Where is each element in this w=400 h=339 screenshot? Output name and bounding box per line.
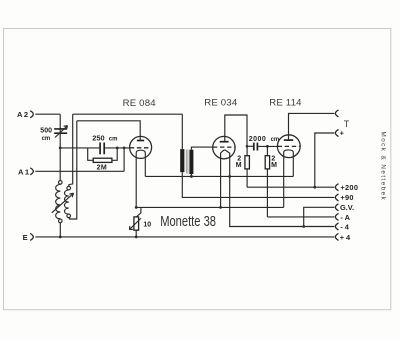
terminal T bbox=[335, 110, 349, 129]
wire RE034 filament right leg to -4 bbox=[230, 159, 335, 227]
svg-text:Monette 38: Monette 38 bbox=[160, 214, 216, 230]
capacitor 2000cm plates bbox=[254, 143, 258, 151]
resistor R 2M grid leak RE084 bbox=[88, 148, 118, 172]
node secondary to filament plus rail bbox=[190, 175, 193, 178]
terminal A1 bbox=[18, 167, 33, 176]
svg-text:M: M bbox=[271, 162, 277, 169]
terminal plus headphone bbox=[335, 129, 344, 138]
node G.V. on -4 line bbox=[302, 225, 305, 228]
svg-text:G.V.: G.V. bbox=[340, 203, 354, 212]
svg-text:cm: cm bbox=[42, 136, 51, 142]
svg-text:A2: A2 bbox=[17, 110, 30, 119]
wire + terminal to +200 rail bbox=[315, 133, 335, 187]
node grid leak RE114 tap bbox=[266, 145, 269, 148]
tube RE114 bbox=[277, 135, 300, 158]
capacitor C 500cm (variable) bbox=[40, 126, 67, 142]
node coupling node bbox=[246, 145, 249, 148]
wire RE034 filament left leg bbox=[220, 159, 222, 208]
wire transformer secondary top to grid RE034 bbox=[191, 147, 213, 150]
svg-text:M: M bbox=[236, 162, 242, 169]
wire capacitor to grid RE114 bbox=[258, 145, 277, 147]
node rheostat to earth line bbox=[135, 236, 138, 239]
wire transformer primary top lead bbox=[181, 114, 183, 149]
svg-text:- A: - A bbox=[340, 213, 350, 222]
svg-text:2000: 2000 bbox=[249, 136, 267, 143]
wire coil R top to top rail bbox=[69, 114, 73, 186]
terminal +200 bbox=[335, 183, 358, 192]
value label 2000 cm bbox=[249, 136, 280, 143]
svg-text:250: 250 bbox=[92, 134, 104, 143]
coil R reaction coil with terminals bbox=[65, 186, 71, 217]
wire +200 rail bbox=[247, 186, 334, 188]
svg-text:RE 034: RE 034 bbox=[204, 98, 238, 109]
svg-text:E: E bbox=[23, 233, 28, 242]
svg-text:500: 500 bbox=[40, 127, 52, 134]
wire grid line from tuned circuit bbox=[60, 147, 99, 149]
wire RE114 filament left leg to minus rail bbox=[283, 157, 285, 207]
resistor 2M grid leak RE114 bbox=[265, 146, 277, 217]
wire anode rail RE084 bbox=[77, 121, 140, 140]
node + wire on +200 rail bbox=[313, 186, 316, 189]
node RE034 right leg on filament plus rail bbox=[228, 175, 231, 178]
svg-text:2M: 2M bbox=[97, 165, 108, 172]
svg-text:Mock & Nettebek: Mock & Nettebek bbox=[380, 132, 387, 202]
terminal +90 bbox=[335, 193, 353, 202]
wire A1 bbox=[35, 170, 124, 172]
wire RE114 filament right leg to plus rail bbox=[292, 157, 294, 176]
node RE034 filament left to rail bbox=[219, 206, 222, 209]
wire RE084 filament left leg bbox=[135, 158, 137, 208]
terminal -4 bbox=[335, 222, 349, 231]
tube RE034 bbox=[213, 136, 236, 158]
capacitor 250cm plates bbox=[100, 143, 104, 155]
wire cap to grid RE084 bbox=[105, 147, 130, 149]
resistor 2M anode load RE034 bbox=[236, 146, 250, 187]
terminal -A bbox=[335, 213, 350, 222]
wire earth line E to +4 bbox=[35, 236, 334, 238]
svg-text:A1: A1 bbox=[18, 167, 31, 176]
transformer T1 bbox=[180, 149, 193, 174]
value label 250 cm bbox=[92, 134, 117, 143]
wire node to capacitor 2000cm bbox=[247, 145, 253, 147]
terminal +4 bbox=[335, 233, 351, 242]
wire -A line bbox=[267, 216, 334, 218]
wire top rail to transformer primary bbox=[73, 113, 183, 115]
svg-text:RE 084: RE 084 bbox=[123, 98, 157, 109]
svg-text:10: 10 bbox=[143, 221, 151, 228]
node A1 tap bbox=[123, 147, 126, 150]
wire G.V. to -4 line bbox=[304, 207, 335, 226]
terminal A2 bbox=[17, 110, 33, 119]
wire transformer secondary bottom lead bbox=[190, 174, 192, 176]
wire A2 to tuned circuit bbox=[35, 113, 60, 115]
wire A1 riser to grid node bbox=[123, 148, 125, 171]
wire filament plus rail bbox=[145, 175, 293, 177]
wire coil R bottom to anode rail RE084 bbox=[69, 121, 77, 219]
wire RE114 anode to T terminal bbox=[289, 113, 335, 140]
node filament rail junction bbox=[135, 206, 138, 209]
coil L antenna coil with terminals bbox=[56, 181, 62, 237]
wire RE084 filament right leg bbox=[144, 158, 146, 177]
svg-text:+ 4: + 4 bbox=[340, 233, 351, 242]
variometer arrow bbox=[52, 193, 74, 213]
rheostat 10 ohm bbox=[129, 207, 151, 237]
node coil L to earth line bbox=[59, 236, 62, 239]
svg-text:T: T bbox=[344, 119, 350, 129]
svg-text:- 4: - 4 bbox=[340, 222, 350, 231]
wire A2 vertical down through 500cm to coil L top bbox=[59, 114, 61, 181]
terminal E bbox=[23, 233, 34, 242]
wire transformer primary bottom to +90 rail bbox=[182, 172, 334, 197]
svg-text:cm: cm bbox=[109, 136, 118, 142]
tube RE084 bbox=[130, 136, 152, 158]
wire filament minus rail bbox=[136, 206, 284, 208]
terminal G.V. bbox=[335, 203, 354, 212]
wire RE034 anode loop to coupling node bbox=[225, 115, 247, 146]
node grid line RE084 bbox=[59, 147, 62, 150]
svg-text:RE 114: RE 114 bbox=[269, 98, 302, 109]
node 2M tap bbox=[116, 147, 119, 150]
svg-text:+90: +90 bbox=[340, 193, 353, 202]
svg-text:+: + bbox=[340, 129, 345, 138]
svg-text:+200: +200 bbox=[340, 183, 358, 192]
